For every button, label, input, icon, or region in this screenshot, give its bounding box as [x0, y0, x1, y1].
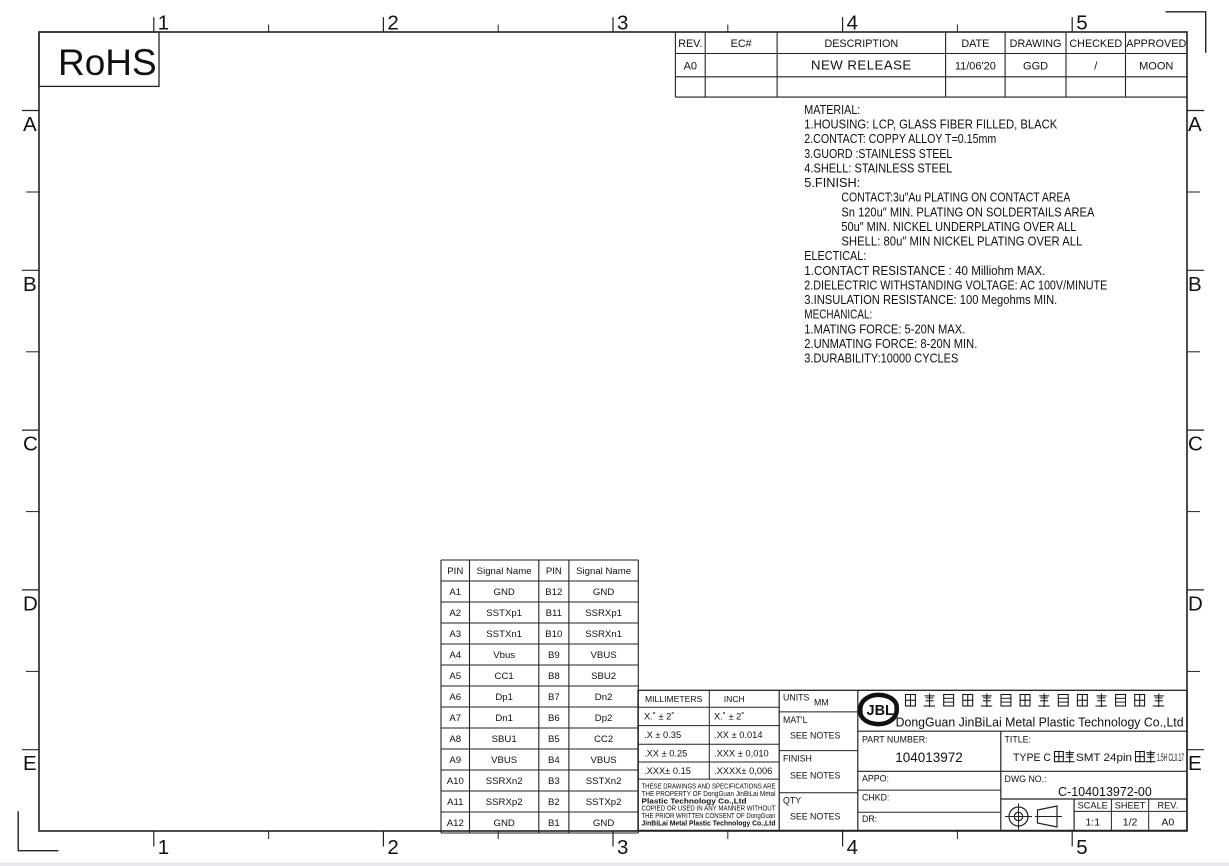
svg-text:B: B [1188, 273, 1202, 296]
svg-text:A6: A6 [449, 692, 461, 703]
svg-text:1: 1 [158, 12, 169, 35]
svg-text:ELECTICAL:: ELECTICAL: [804, 248, 866, 263]
RoHS logo box [39, 32, 159, 86]
svg-text:SMT 24pin: SMT 24pin [1076, 752, 1132, 764]
svg-text:50u″ MIN. NICKEL UNDERPLATING: 50u″ MIN. NICKEL UNDERPLATING OVER ALL [841, 219, 1076, 234]
svg-text:5: 5 [1076, 12, 1087, 35]
svg-text:SHEET: SHEET [1115, 801, 1146, 811]
pin assignment table [441, 559, 638, 561]
svg-text:DRAWING: DRAWING [1010, 38, 1062, 50]
svg-text:A0: A0 [684, 61, 697, 73]
svg-text:VBUS: VBUS [591, 650, 617, 661]
svg-text:TITLE:: TITLE: [1005, 735, 1031, 745]
svg-text:VBUS: VBUS [591, 755, 617, 766]
svg-text:E: E [1188, 752, 1202, 775]
svg-text:REV.: REV. [678, 38, 702, 50]
svg-text:THE PRIOR WRITTEN CONSENT OF D: THE PRIOR WRITTEN CONSENT OF DongGuan [642, 813, 776, 820]
svg-text:C: C [23, 433, 38, 456]
svg-text:B10: B10 [545, 629, 562, 640]
svg-text:DATE: DATE [961, 38, 989, 50]
svg-text:4: 4 [847, 836, 858, 859]
svg-text:X.˚ ± 2˚: X.˚ ± 2˚ [644, 712, 674, 722]
svg-text:SBU2: SBU2 [591, 671, 616, 682]
svg-text:A2: A2 [449, 608, 461, 619]
svg-text:SSTXn1: SSTXn1 [486, 629, 522, 640]
svg-text:.X ± 0.35: .X ± 0.35 [644, 730, 681, 740]
zone row ticks and letters (left) [22, 110, 39, 112]
company Chinese name (pseudo glyphs) [906, 695, 916, 707]
svg-text:QTY: QTY [783, 796, 801, 806]
svg-text:SSTXp2: SSTXp2 [586, 797, 622, 808]
svg-text:MM: MM [814, 698, 829, 708]
svg-text:A: A [1188, 113, 1202, 136]
top-right trim mark [1166, 12, 1206, 53]
svg-text:B1: B1 [548, 818, 560, 829]
scale / sheet / rev cells [1073, 799, 1075, 830]
svg-text:EC#: EC# [731, 38, 752, 50]
svg-text:RoHS: RoHS [58, 42, 157, 83]
svg-text:C: C [1188, 433, 1203, 456]
svg-text:5: 5 [1076, 836, 1087, 859]
svg-text:MATERIAL:: MATERIAL: [804, 102, 860, 117]
svg-text:THESE DRAWINGS AND SPECIFICATI: THESE DRAWINGS AND SPECIFICATIONS ARE [642, 784, 776, 791]
svg-text:B11: B11 [546, 608, 562, 619]
svg-text:GND: GND [493, 818, 514, 829]
revision table [675, 53, 1187, 55]
zone column ticks and numbers (top) [153, 17, 155, 32]
third-angle projection symbol [1009, 807, 1028, 826]
svg-text:Dp2: Dp2 [595, 713, 613, 724]
svg-text:REV.: REV. [1158, 801, 1179, 811]
svg-text:SSRXn1: SSRXn1 [585, 629, 622, 640]
svg-text:A3: A3 [449, 629, 461, 640]
svg-text:SSTXn2: SSTXn2 [586, 776, 622, 787]
svg-text:SEE NOTES: SEE NOTES [790, 731, 840, 741]
svg-text:D: D [23, 592, 38, 615]
svg-text:FINISH: FINISH [783, 754, 812, 764]
svg-text:1: 1 [158, 836, 169, 859]
tolerance table [638, 706, 779, 708]
svg-text:.XXXX± 0,006: .XXXX± 0,006 [714, 766, 772, 776]
svg-text:MILLIMETERS: MILLIMETERS [645, 694, 703, 704]
company logo (JBL swirl) [860, 695, 896, 724]
svg-text:NEW RELEASE: NEW RELEASE [811, 58, 912, 73]
svg-text:APPROVED: APPROVED [1126, 38, 1186, 50]
svg-text:VBUS: VBUS [491, 755, 517, 766]
svg-text:3.INSULATION RESISTANCE: 100 M: 3.INSULATION RESISTANCE: 100 Megohms MIN… [804, 292, 1057, 307]
svg-text:1/2: 1/2 [1123, 817, 1138, 829]
svg-text:X.˚ ± 2˚: X.˚ ± 2˚ [714, 712, 744, 722]
zone column ticks and numbers (bottom) [153, 831, 155, 847]
svg-text:SBU1: SBU1 [492, 734, 517, 745]
svg-text:DongGuan JinBiLai Metal Plasti: DongGuan JinBiLai Metal Plastic Technolo… [896, 716, 1184, 730]
svg-text:5.FINISH:: 5.FINISH: [804, 175, 860, 190]
svg-text:GND: GND [593, 818, 614, 829]
svg-text:GND: GND [593, 587, 614, 598]
svg-text:A5: A5 [449, 671, 461, 682]
part number cell [1000, 731, 1002, 830]
svg-text:SSRXp2: SSRXp2 [486, 797, 523, 808]
svg-text:COPIED OR USED IN ANY MANNER W: COPIED OR USED IN ANY MANNER WITHOUT [642, 806, 777, 813]
svg-text:B5: B5 [548, 734, 560, 745]
svg-text:4.SHELL: STAINLESS STEEL: 4.SHELL: STAINLESS STEEL [804, 160, 952, 175]
svg-text:A7: A7 [449, 713, 461, 724]
svg-text:3: 3 [617, 12, 628, 35]
svg-text:3.GUORD :STAINLESS STEEL: 3.GUORD :STAINLESS STEEL [804, 146, 952, 161]
svg-text:UNITS: UNITS [783, 693, 810, 703]
svg-text:A4: A4 [449, 650, 461, 661]
svg-text:GND: GND [493, 587, 514, 598]
zone row ticks and letters (right) [1187, 110, 1204, 112]
svg-text:.XXX± 0.15: .XXX± 0.15 [644, 766, 691, 776]
svg-text:JinBiLai Metal Plastic Technol: JinBiLai Metal Plastic Technology Co.,Lt… [642, 820, 776, 827]
svg-text:B8: B8 [548, 671, 560, 682]
svg-text:11/06'20: 11/06'20 [955, 61, 996, 73]
svg-text:2: 2 [387, 12, 398, 35]
svg-text:B7: B7 [548, 692, 560, 703]
svg-text:E: E [23, 752, 37, 775]
svg-text:GGD: GGD [1023, 61, 1048, 73]
svg-text:THE PROPERTY OF DongGuan JinBi: THE PROPERTY OF DongGuan JinBiLai Metal [642, 791, 776, 798]
svg-text:SCALE: SCALE [1078, 801, 1108, 811]
svg-text:1.CONTACT RESISTANCE : 40 Mill: 1.CONTACT RESISTANCE : 40 Milliohm MAX. [804, 263, 1045, 278]
svg-text:.XXX ± 0,010: .XXX ± 0,010 [714, 748, 769, 758]
svg-text:SSRXp1: SSRXp1 [585, 608, 622, 619]
svg-text:C-104013972-00: C-104013972-00 [1058, 785, 1152, 799]
svg-text:APPO:: APPO: [862, 774, 889, 784]
svg-text:TYPE C: TYPE C [1013, 752, 1051, 764]
svg-text:DWG NO.:: DWG NO.: [1005, 774, 1047, 784]
svg-text:MECHANICAL:: MECHANICAL: [804, 307, 872, 322]
svg-text:B12: B12 [545, 587, 562, 598]
svg-text:A8: A8 [449, 734, 461, 745]
svg-text:CC1: CC1 [495, 671, 514, 682]
svg-text:SHELL: 80u″ MIN NICKEL PLATING: SHELL: 80u″ MIN NICKEL PLATING OVER ALL [841, 234, 1082, 249]
dwg no cell [1001, 770, 1187, 772]
svg-text:3.DURABILITY:10000 CYCLES: 3.DURABILITY:10000 CYCLES [804, 351, 958, 366]
svg-text:2: 2 [387, 836, 398, 859]
units / matl / finish / qty cells [779, 711, 858, 713]
appo / chkd / dr cells [858, 789, 1001, 791]
svg-text:SEE NOTES: SEE NOTES [790, 812, 840, 822]
svg-text:1.MATING FORCE: 5-20N MAX.: 1.MATING FORCE: 5-20N MAX. [804, 321, 965, 336]
svg-text:.XX ± 0.014: .XX ± 0.014 [714, 730, 763, 740]
svg-text:2.UNMATING FORCE: 8-20N MIN.: 2.UNMATING FORCE: 8-20N MIN. [804, 336, 977, 351]
svg-text:SSTXp1: SSTXp1 [486, 608, 522, 619]
svg-text:A9: A9 [449, 755, 461, 766]
svg-text:4: 4 [847, 12, 858, 35]
svg-text:Dp1: Dp1 [495, 692, 513, 703]
svg-text:MOON: MOON [1139, 61, 1173, 73]
svg-text:B6: B6 [548, 713, 560, 724]
svg-text:A: A [23, 113, 37, 136]
svg-text:CC2: CC2 [594, 734, 613, 745]
svg-text:PIN: PIN [447, 566, 463, 577]
svg-text:2.CONTACT: COPPY ALLOY T=0.15m: 2.CONTACT: COPPY ALLOY T=0.15mm [804, 131, 996, 146]
svg-text:Plastic Technology Co.,Ltd: Plastic Technology Co.,Ltd [642, 798, 747, 805]
svg-text:Dn1: Dn1 [495, 713, 513, 724]
bottom-left trim mark [18, 811, 58, 850]
svg-text:.XX ± 0.25: .XX ± 0.25 [644, 748, 687, 758]
svg-text:B4: B4 [548, 755, 560, 766]
svg-text:B2: B2 [548, 797, 560, 808]
svg-text:2.DIELECTRIC WITHSTANDING VOLT: 2.DIELECTRIC WITHSTANDING VOLTAGE: AC 10… [804, 277, 1107, 292]
svg-text:DESCRIPTION: DESCRIPTION [824, 38, 898, 50]
svg-text:SSRXn2: SSRXn2 [486, 776, 523, 787]
svg-text:A11: A11 [447, 797, 463, 808]
svg-text:SEE NOTES: SEE NOTES [790, 771, 840, 781]
svg-text:B: B [23, 273, 37, 296]
svg-text:MAT'L: MAT'L [783, 715, 808, 725]
svg-text:JBL: JBL [867, 703, 895, 719]
title block outer [638, 690, 1187, 830]
svg-text:Sn 120u″ MIN. PLATING ON SOLDE: Sn 120u″ MIN. PLATING ON SOLDERTAILS ARE… [841, 204, 1094, 219]
svg-text:CONTACT:3u″Au PLATING ON CONTA: CONTACT:3u″Au PLATING ON CONTACT AREA [841, 190, 1070, 205]
svg-text:Signal Name: Signal Name [477, 566, 532, 577]
bottom page-edge gray strip [0, 863, 1229, 866]
svg-text:PIN: PIN [546, 566, 562, 577]
svg-text:PART NUMBER:: PART NUMBER: [862, 735, 928, 745]
svg-text:CHECKED: CHECKED [1069, 38, 1122, 50]
svg-text:A1: A1 [449, 587, 461, 598]
svg-text:Signal Name: Signal Name [576, 566, 631, 577]
svg-text:INCH: INCH [724, 694, 745, 704]
svg-text:B9: B9 [548, 650, 560, 661]
svg-text:Dn2: Dn2 [595, 692, 613, 703]
svg-text:1.5H CL0.17: 1.5H CL0.17 [1157, 752, 1184, 764]
svg-text:104013972: 104013972 [895, 750, 963, 765]
svg-text:A10: A10 [447, 776, 464, 787]
svg-text:1.HOUSING: LCP, GLASS FIBER FI: 1.HOUSING: LCP, GLASS FIBER FILLED, BLAC… [804, 117, 1057, 132]
svg-text:Vbus: Vbus [493, 650, 515, 661]
svg-text:A0: A0 [1161, 817, 1174, 829]
svg-text:1:1: 1:1 [1085, 817, 1100, 829]
svg-text:A12: A12 [447, 818, 464, 829]
svg-text:B3: B3 [548, 776, 560, 787]
svg-text:3: 3 [617, 836, 628, 859]
svg-text:CHKD:: CHKD: [862, 793, 889, 803]
svg-text:DR:: DR: [862, 814, 877, 824]
svg-text:D: D [1188, 592, 1203, 615]
